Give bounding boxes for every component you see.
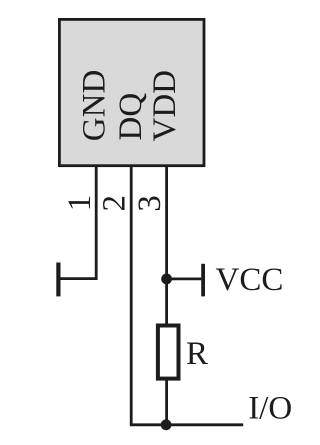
svg-text:DQ: DQ [113, 93, 149, 141]
wire pin3 VDD: down to resistor top [165, 166, 168, 326]
node junction dot on I/O rail [161, 419, 172, 430]
wire resistor bottom to I/O rail [165, 379, 168, 425]
wire VCC branch: node to VCC bar [167, 277, 202, 280]
wire pin2 DQ: down then right along bottom [131, 166, 243, 425]
IC body U1 (sensor package) [59, 19, 204, 165]
wire pin1 GND: down then left to ground terminal [59, 166, 97, 279]
ground terminal bar [56, 263, 60, 297]
node junction dot on VDD wire [161, 274, 172, 285]
svg-text:I/O: I/O [248, 391, 292, 427]
svg-text:3: 3 [132, 195, 168, 212]
resistor R [158, 326, 179, 379]
svg-text:2: 2 [97, 195, 133, 212]
svg-text:GND: GND [77, 70, 113, 142]
svg-text:VDD: VDD [147, 70, 183, 142]
svg-text:1: 1 [62, 195, 98, 212]
VCC terminal bar [201, 264, 205, 297]
svg-text:VCC: VCC [216, 262, 284, 298]
svg-text:R: R [186, 336, 208, 372]
